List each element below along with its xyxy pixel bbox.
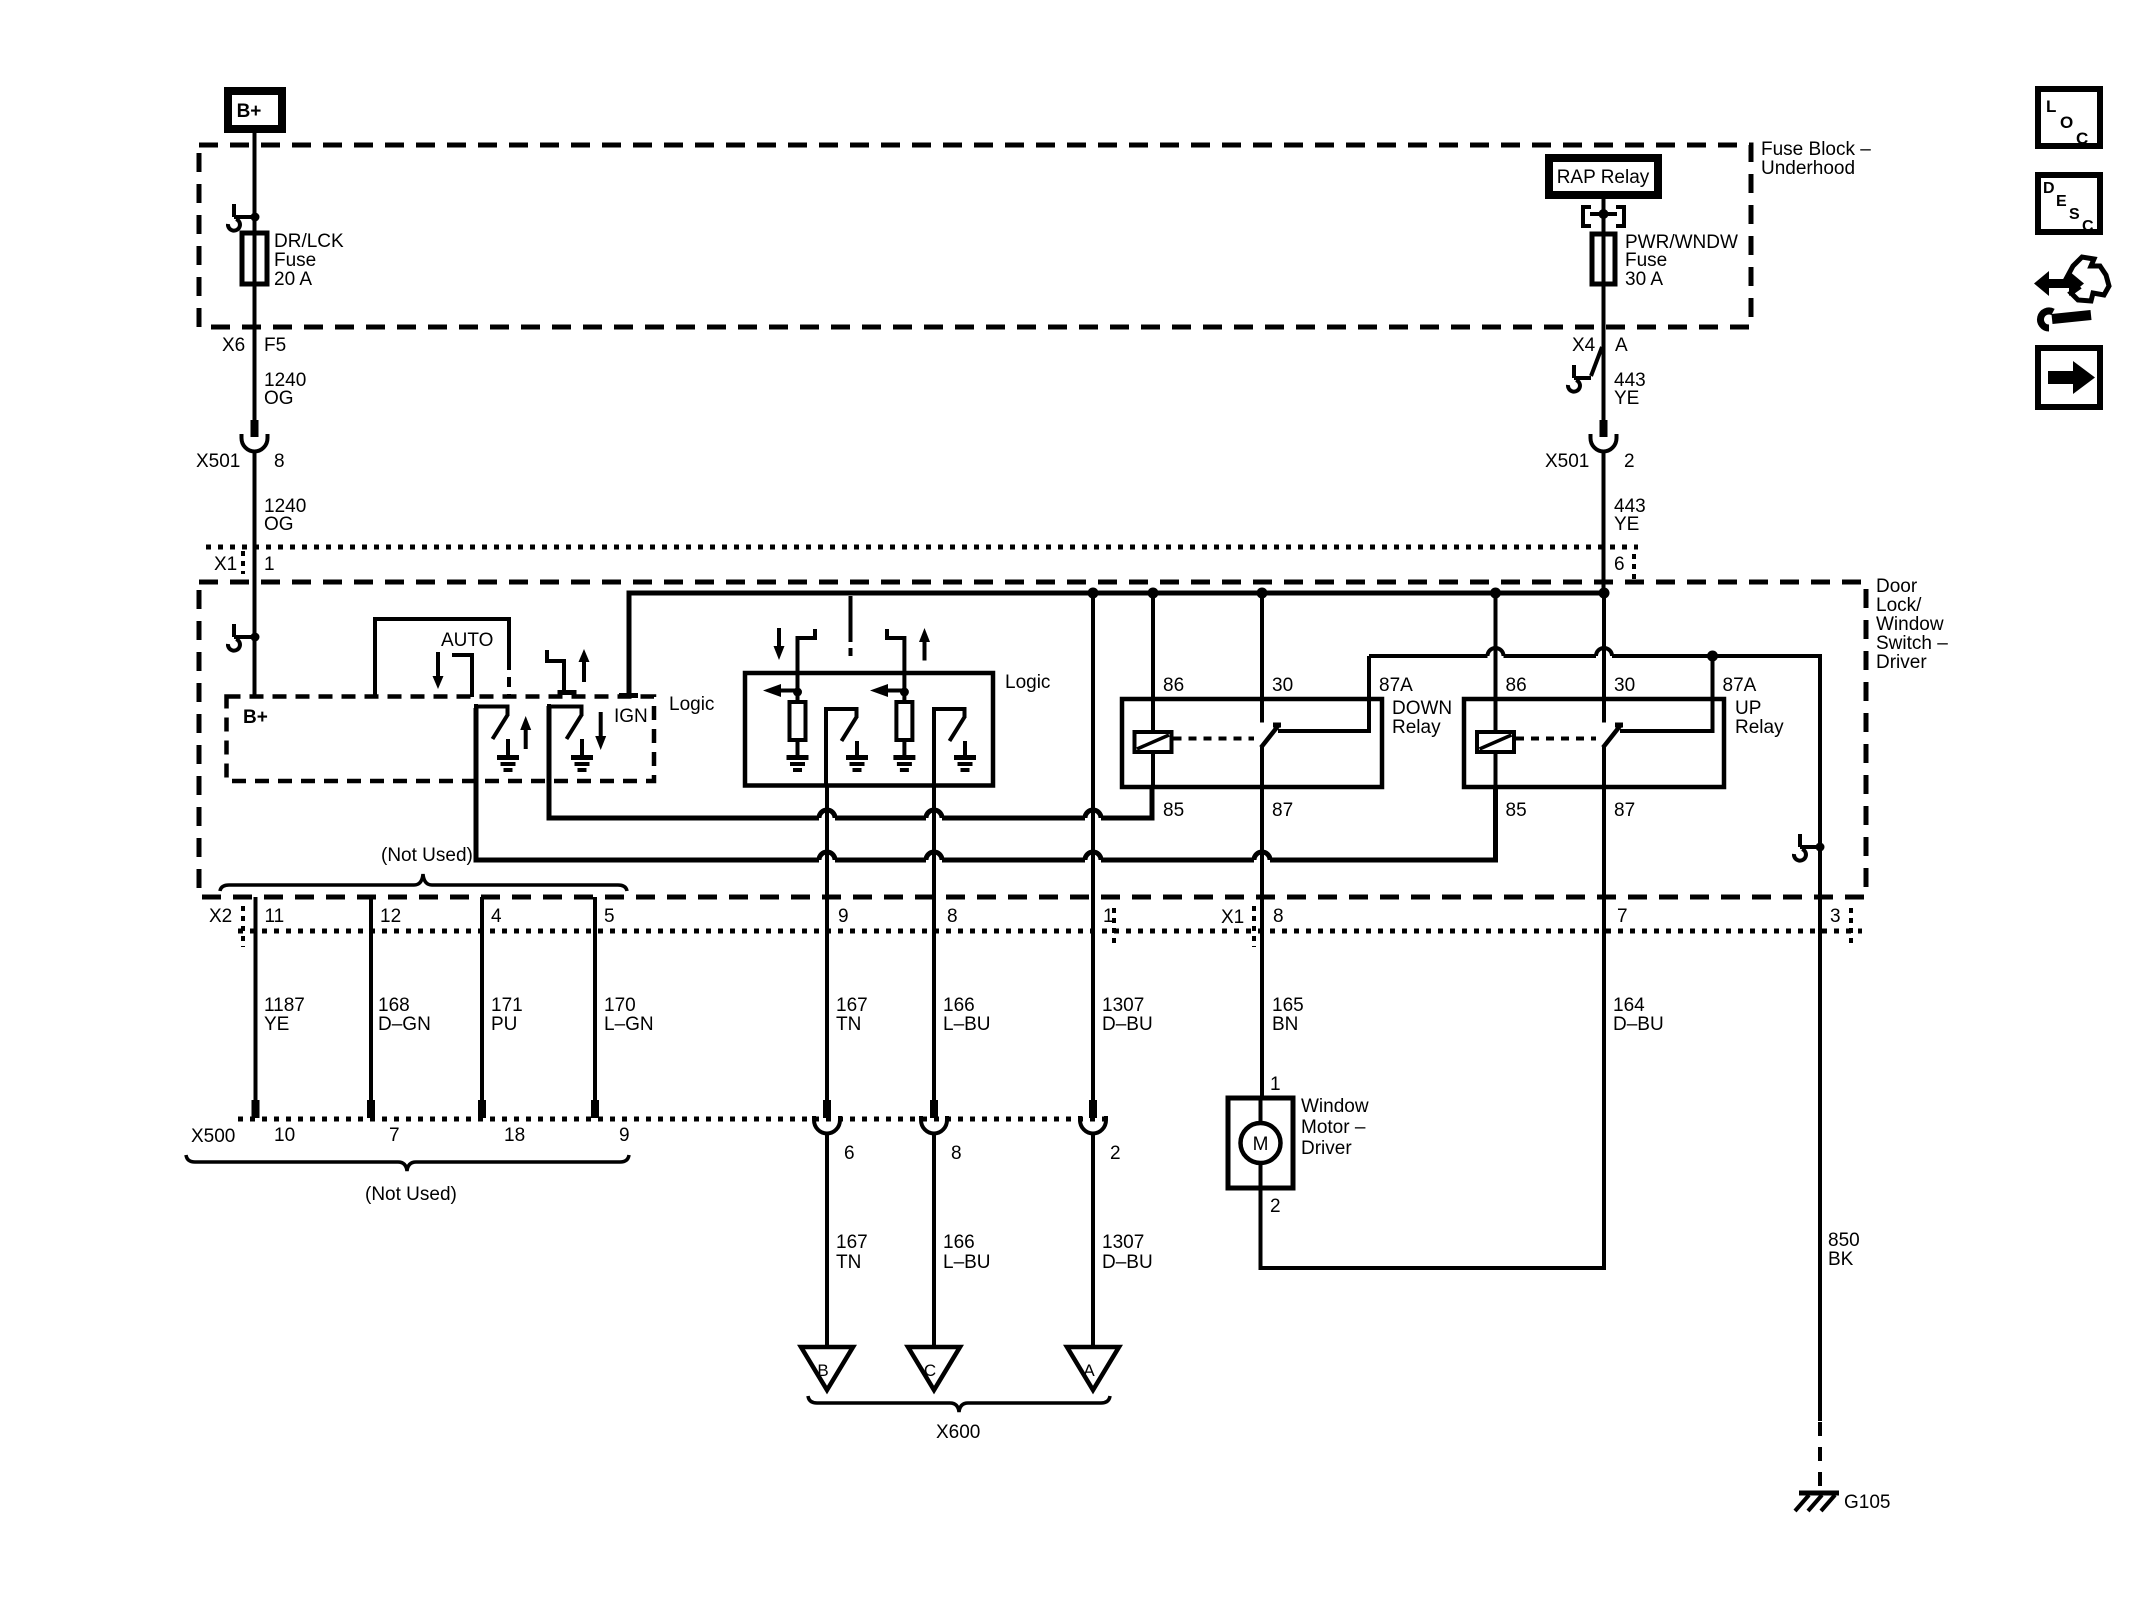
Window Motor - Driver box: [1228, 1098, 1293, 1188]
IGN feed from bus: [627, 692, 631, 696]
label X1 (bottom row): [1114, 906, 1254, 947]
wire label 1240 OG: [264, 370, 306, 409]
RAP Relay box: [1549, 158, 1658, 195]
svg-text:AUTO: AUTO: [441, 630, 493, 651]
wire 87A contacts to ground pin 3 (with crossover hops): [1369, 656, 1820, 1421]
svg-text:87A: 87A: [1379, 675, 1413, 696]
UP Relay coil-armature dashed link: [1516, 737, 1596, 741]
bus junction node pin1 column: [1088, 588, 1099, 599]
up arrow (rocker right): [919, 628, 930, 661]
wire label 850 BK: [1828, 1230, 1860, 1270]
relay box DOWN Relay: [1122, 699, 1382, 787]
wire label 1187 YE: [264, 995, 305, 1035]
relay box UP Relay: [1464, 699, 1724, 787]
svg-text:9: 9: [838, 906, 849, 927]
down arrow (rocker left): [774, 628, 785, 660]
svg-text:Window: Window: [1301, 1096, 1369, 1117]
slanted clip terminal on 443 wire: [1568, 347, 1602, 392]
DOWN Relay pin 87: [1262, 747, 1293, 821]
svg-text:IGN: IGN: [614, 706, 648, 727]
pin labels X6 / F5: [222, 335, 286, 356]
Fuse Block - Underhood dashed box: [199, 145, 1751, 327]
wire fuse to X501-8 connector: [253, 284, 257, 420]
wire label 164 D-BU: [1613, 995, 1664, 1035]
svg-text:7: 7: [389, 1125, 400, 1146]
connector row X1 (pins 1 and 6): [206, 545, 1638, 550]
svg-text:86: 86: [1506, 675, 1527, 696]
AUTO box: [375, 619, 509, 696]
svg-text:BK: BK: [1828, 1249, 1854, 1270]
svg-text:Fuse: Fuse: [274, 250, 316, 271]
wire X1-1 into switch: [253, 582, 257, 696]
wire: DOWN switch common to DOWN relay 85 (with crossover hops): [549, 706, 1152, 818]
hook contact above IGN cell: [547, 650, 564, 690]
B+ power terminal box: [228, 91, 282, 129]
svg-text:(Not Used): (Not Used): [365, 1184, 457, 1205]
svg-text:D–BU: D–BU: [1613, 1014, 1664, 1035]
svg-text:10: 10: [274, 1125, 295, 1146]
wire pin 9 column (167 TN): [825, 785, 829, 1100]
svg-text:S: S: [2069, 206, 2080, 223]
svg-text:M: M: [1253, 1134, 1269, 1155]
svg-text:YE: YE: [1614, 514, 1639, 535]
label X2: [209, 906, 243, 947]
wire label 1307 D-BU: [1102, 995, 1153, 1035]
unused pin 5 stub: [591, 897, 615, 1118]
svg-text:1187: 1187: [264, 995, 305, 1016]
dashed continuation of ground wire: [1818, 1421, 1822, 1492]
RAP relay output bracket terminal: [1583, 199, 1624, 233]
UP Relay pin 87: [1604, 747, 1635, 821]
door lock/window switch label: [1876, 576, 1948, 673]
svg-text:164: 164: [1613, 995, 1645, 1016]
svg-text:12: 12: [380, 906, 401, 927]
connector row X500 dotted line: [238, 1117, 1105, 1122]
svg-text:B+: B+: [243, 707, 268, 728]
up arrow near IGN hook: [579, 649, 590, 682]
svg-text:L–GN: L–GN: [604, 1014, 654, 1035]
pin labels X4 / A: [1572, 335, 1628, 356]
svg-text:11: 11: [265, 906, 285, 927]
fuse block label: [1761, 139, 1871, 179]
svg-text:X600: X600: [936, 1422, 980, 1443]
bus junction node UP relay 86: [1490, 588, 1501, 599]
wire 167 TN to X600-B: [825, 1133, 829, 1347]
left arrow (UP sense): [870, 684, 904, 697]
bus junction node 443 feed: [1599, 588, 1610, 599]
svg-text:YE: YE: [1614, 388, 1639, 409]
svg-text:8: 8: [1273, 906, 1284, 927]
svg-text:165: 165: [1272, 995, 1304, 1016]
svg-text:18: 18: [504, 1125, 525, 1146]
pull-down branch UP (node): [900, 673, 909, 702]
svg-text:1: 1: [1270, 1074, 1281, 1095]
connector X501 pin 8: [242, 420, 268, 452]
ground (DOWN switch cell): [571, 739, 593, 770]
svg-text:L: L: [2046, 97, 2056, 116]
clip terminal on ground wire: [1794, 834, 1825, 861]
svg-text:1: 1: [264, 554, 275, 575]
svg-text:8: 8: [274, 451, 285, 472]
svg-text:TN: TN: [836, 1014, 861, 1035]
AUTO down arrow: [433, 652, 444, 689]
fuse PWR/WNDW 30 A: [1592, 232, 1738, 290]
svg-text:A: A: [1615, 335, 1628, 356]
window UP switch cell: [474, 704, 510, 858]
svg-text:A: A: [1083, 1361, 1095, 1380]
svg-text:168: 168: [378, 995, 410, 1016]
svg-text:Logic: Logic: [1005, 672, 1050, 693]
brace (Not Used) lower X500: [186, 1155, 629, 1205]
fuse DR/LCK 20 A: [242, 231, 344, 290]
wire 1307 D-BU to X600-A: [1091, 1133, 1095, 1347]
wire label 165 BN: [1272, 995, 1304, 1035]
svg-text:171: 171: [491, 995, 523, 1016]
left arrow (DOWN sense): [763, 684, 798, 697]
svg-text:G105: G105: [1844, 1492, 1890, 1513]
svg-text:166: 166: [943, 1232, 975, 1253]
forward arrow icon box: [2038, 348, 2100, 407]
unused pin 11 stub: [252, 897, 285, 1118]
svg-text:87A: 87A: [1723, 675, 1757, 696]
junction UP relay 87A: [1707, 651, 1718, 662]
svg-text:5: 5: [604, 906, 615, 927]
svg-text:E: E: [2056, 193, 2067, 210]
UP Relay pin 30: [1604, 596, 1635, 723]
svg-text:9: 9: [619, 1125, 630, 1146]
down arrow (DOWN switch cell): [595, 712, 606, 750]
svg-text:DR/LCK: DR/LCK: [274, 231, 344, 252]
svg-text:C: C: [924, 1361, 936, 1380]
Door Lock/Window Switch - Driver dashed box: [199, 582, 1866, 897]
wire UP relay 87 to motor (164 D-BU): [1261, 787, 1605, 1268]
connector row X2/X1 dotted line: [238, 929, 1862, 934]
svg-text:Switch –: Switch –: [1876, 633, 1948, 654]
wire label 166 L-BU (lower): [943, 1232, 991, 1273]
wire label 166 L-BU: [943, 995, 991, 1035]
svg-text:L–BU: L–BU: [943, 1252, 991, 1273]
unused pin 4 stub: [478, 897, 502, 1118]
label UP Relay: [1735, 698, 1784, 738]
internal B+ bus: [629, 593, 1604, 694]
svg-text:RAP Relay: RAP Relay: [1557, 167, 1650, 188]
ground (logic cell pin 9): [846, 741, 868, 770]
svg-text:D–BU: D–BU: [1102, 1252, 1153, 1273]
ground (R-UP): [893, 740, 915, 770]
resistor R-UP: [896, 702, 912, 740]
svg-text:X6: X6: [222, 335, 245, 356]
connector X501 pin 2: [1591, 420, 1617, 452]
svg-text:O: O: [2060, 113, 2073, 132]
ground G105: [1795, 1492, 1890, 1513]
svg-text:Fuse: Fuse: [1625, 250, 1667, 271]
svg-text:166: 166: [943, 995, 975, 1016]
UP Relay pin 86: [1496, 596, 1527, 732]
bus junction node DOWN relay 86: [1148, 588, 1159, 599]
svg-text:Driver: Driver: [1301, 1138, 1352, 1159]
UP Relay coil: [1477, 732, 1514, 752]
svg-text:6: 6: [1614, 554, 1625, 575]
svg-text:167: 167: [836, 995, 868, 1016]
svg-text:8: 8: [947, 906, 958, 927]
svg-text:2: 2: [1624, 451, 1635, 472]
svg-text:Underhood: Underhood: [1761, 158, 1855, 179]
svg-text:1307: 1307: [1102, 1232, 1144, 1253]
wire label 167 TN: [836, 995, 868, 1035]
DOWN Relay pin 30: [1262, 596, 1293, 723]
connector X500 pin 2: [1080, 1100, 1121, 1164]
X500 unused pin labels: [274, 1125, 630, 1146]
svg-text:OG: OG: [264, 514, 294, 535]
wire label 443 YE: [1614, 370, 1646, 409]
svg-text:85: 85: [1506, 800, 1527, 821]
window DOWN/IGN switch cell: [547, 704, 584, 818]
T-bar contact IGN feed: [619, 693, 638, 698]
svg-text:87: 87: [1614, 800, 1635, 821]
svg-text:167: 167: [836, 1232, 868, 1253]
connector X600 terminal A: [1067, 1347, 1119, 1390]
svg-text:30 A: 30 A: [1625, 269, 1663, 290]
wire label 1240 OG (lower): [264, 496, 306, 535]
Logic box (rocker switch logic): [745, 673, 993, 786]
rocker right hook contact: [887, 629, 904, 673]
svg-text:1: 1: [1103, 906, 1114, 927]
svg-text:Door: Door: [1876, 576, 1918, 597]
svg-text:X2: X2: [209, 906, 232, 927]
pull-down branch DOWN (node): [793, 673, 802, 702]
unused pin 12 stub: [367, 897, 401, 1118]
rocker left hook contact: [798, 629, 816, 673]
svg-text:30: 30: [1614, 675, 1635, 696]
label DOWN Relay: [1392, 698, 1452, 738]
wire label 168 D-GN: [378, 995, 431, 1035]
svg-text:BN: BN: [1272, 1014, 1298, 1035]
svg-text:TN: TN: [836, 1252, 861, 1273]
LOC icon box: [2038, 89, 2100, 148]
logic switch cell to pin 9: [824, 707, 859, 786]
svg-text:1307: 1307: [1102, 995, 1144, 1016]
svg-text:Fuse Block –: Fuse Block –: [1761, 139, 1871, 160]
svg-text:6: 6: [844, 1143, 855, 1164]
rocker feed contact from bus: [849, 596, 853, 656]
svg-text:B: B: [817, 1361, 828, 1380]
svg-text:7: 7: [1617, 906, 1628, 927]
connector X500 pin 6: [814, 1100, 855, 1164]
ground (R-DOWN): [787, 740, 809, 770]
clip terminal on DR/LCK fuse feed: [228, 204, 260, 231]
wire pin 8 column (166 L-BU): [932, 785, 936, 1100]
DOWN Relay pin 85: [1153, 752, 1184, 821]
svg-text:4: 4: [491, 906, 502, 927]
svg-text:Lock/: Lock/: [1876, 595, 1922, 616]
svg-text:170: 170: [604, 995, 636, 1016]
UP Relay pin 85: [1496, 752, 1527, 821]
svg-text:X4: X4: [1572, 335, 1596, 356]
up arrow (UP switch cell): [520, 716, 531, 749]
svg-text:30: 30: [1272, 675, 1293, 696]
DOWN Relay coil-armature dashed link: [1174, 737, 1255, 741]
DESC icon box: [2038, 175, 2100, 235]
svg-text:X1: X1: [1221, 907, 1244, 928]
T-bar contact (switch common): [558, 690, 577, 695]
svg-text:F5: F5: [264, 335, 286, 356]
brace X600: [808, 1396, 1110, 1443]
window motor label: [1301, 1096, 1369, 1159]
svg-text:850: 850: [1828, 1230, 1860, 1251]
svg-text:B+: B+: [237, 101, 262, 122]
svg-text:D–BU: D–BU: [1102, 1014, 1153, 1035]
svg-text:Relay: Relay: [1735, 717, 1784, 738]
svg-text:UP: UP: [1735, 698, 1761, 719]
svg-text:OG: OG: [264, 388, 294, 409]
ground (UP switch cell): [497, 739, 519, 770]
svg-text:2: 2: [1110, 1143, 1121, 1164]
svg-text:20 A: 20 A: [274, 269, 312, 290]
svg-text:86: 86: [1163, 675, 1184, 696]
connector X600 terminal B: [801, 1347, 853, 1390]
clip terminal on B+ feed inside switch: [228, 624, 260, 651]
svg-text:D: D: [2043, 180, 2055, 197]
svg-text:Motor –: Motor –: [1301, 1117, 1366, 1138]
DOWN Relay pin 86: [1153, 596, 1184, 732]
wire PWR/WNDW fuse to X501-2: [1602, 284, 1606, 420]
svg-text:YE: YE: [264, 1014, 289, 1035]
svg-text:8: 8: [951, 1143, 962, 1164]
svg-text:2: 2: [1270, 1196, 1281, 1217]
wire X501-8 to X1-1: [253, 451, 257, 582]
wire label 443 YE (lower): [1614, 496, 1646, 535]
svg-text:C: C: [2082, 218, 2094, 235]
wire label 167 TN (lower): [836, 1232, 868, 1273]
ground (logic cell pin 8): [954, 741, 976, 770]
pin label 3 (X1): [1830, 906, 1851, 947]
diagnostic wrench icon: [2034, 257, 2109, 328]
svg-text:Logic: Logic: [669, 694, 714, 715]
wire label 170 L-GN: [604, 995, 654, 1035]
wire DOWN relay 87 to motor (165 BN): [1260, 787, 1264, 1098]
svg-text:X501: X501: [196, 451, 240, 472]
wire 166 L-BU to X600-C: [932, 1133, 936, 1347]
logic switch cell to pin 8: [932, 707, 967, 786]
wire pin 1 column (1307 D-BU): [1091, 593, 1095, 1100]
svg-text:L–BU: L–BU: [943, 1014, 991, 1035]
svg-text:Window: Window: [1876, 614, 1944, 635]
wire B+ to DR/LCK fuse: [253, 133, 257, 233]
svg-text:Driver: Driver: [1876, 652, 1927, 673]
wire X501-2 to X1-6: [1602, 451, 1606, 593]
svg-text:(Not Used): (Not Used): [381, 845, 473, 866]
svg-text:Relay: Relay: [1392, 717, 1441, 738]
svg-text:X500: X500: [191, 1126, 235, 1147]
resistor R-DOWN: [790, 702, 806, 740]
UP Relay pin 87A contact: [1620, 656, 1757, 731]
svg-text:PU: PU: [491, 1014, 517, 1035]
svg-text:87: 87: [1272, 800, 1293, 821]
brace (Not Used) upper: [220, 845, 627, 891]
svg-text:3: 3: [1830, 906, 1841, 927]
AUTO step contact: [452, 655, 472, 697]
svg-text:85: 85: [1163, 800, 1184, 821]
DOWN Relay coil: [1135, 732, 1172, 752]
svg-text:DOWN: DOWN: [1392, 698, 1452, 719]
UP Relay armature switch arm: [1603, 725, 1623, 748]
bus junction node DOWN relay 30: [1257, 588, 1268, 599]
connector X600 terminal C: [908, 1347, 960, 1390]
wire: UP switch common to UP relay 85 (with crossover hops): [476, 708, 1496, 860]
DOWN Relay armature switch arm: [1261, 725, 1281, 748]
connector X500 pin 8: [921, 1100, 962, 1164]
svg-text:C: C: [2076, 129, 2088, 148]
svg-text:X1: X1: [214, 554, 237, 575]
DOWN Relay pin 87A contact: [1278, 656, 1413, 731]
motor M1: [1241, 1098, 1281, 1188]
inner B+/IGN dashed box: [227, 697, 655, 782]
wire label 1307 D-BU (lower): [1102, 1232, 1153, 1273]
svg-text:X501: X501: [1545, 451, 1589, 472]
svg-text:D–GN: D–GN: [378, 1014, 431, 1035]
wire label 171 PU: [491, 995, 523, 1035]
